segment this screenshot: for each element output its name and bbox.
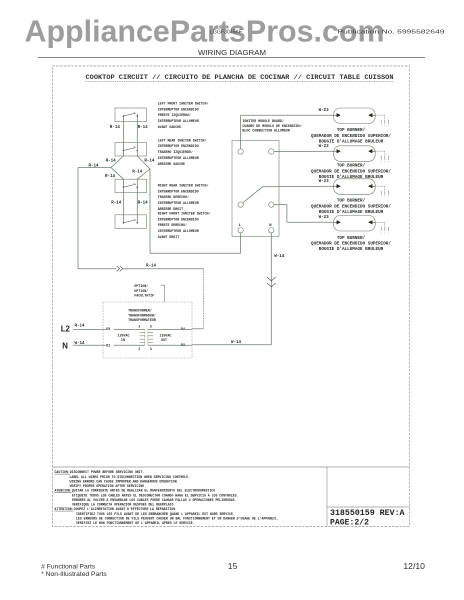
- wire to burner B4: [287, 221, 334, 223]
- top burner igniter B2: [334, 146, 376, 162]
- svg-text:TOP BURNER/: TOP BURNER/: [337, 164, 366, 169]
- wire pin4 to D2: [148, 344, 192, 346]
- svg-text:ATTENTION:COUPEZ L'ALIMENTATIO: ATTENTION:COUPEZ L'ALIMENTATION AVANT D'…: [55, 507, 178, 511]
- module relay arm: [243, 187, 263, 203]
- wire relay to burner B3: [263, 185, 334, 188]
- svg-text:318550159 REV:A: 318550159 REV:A: [330, 509, 405, 518]
- svg-text:QUEMADOR DE ENCENDIDO SUPERIOR: QUEMADOR DE ENCENDIDO SUPERIOR/: [311, 169, 391, 174]
- svg-text:15: 15: [228, 561, 238, 571]
- wire module TL up: [240, 115, 242, 149]
- terminal label D3: [106, 326, 114, 331]
- svg-text:AVANT GAUCHE.: AVANT GAUCHE.: [158, 125, 183, 129]
- igniter module board U1: [232, 141, 279, 237]
- svg-text:BOUGIE D'ALLUMAGE BRULEUR: BOUGIE D'ALLUMAGE BRULEUR: [319, 247, 384, 252]
- svg-text:LGGF3045KF: LGGF3045KF: [210, 30, 242, 36]
- igniter switch S3 right rear: [115, 179, 147, 193]
- svg-text:INTERRUPTOR ENCENDIDO: INTERRUPTOR ENCENDIDO: [158, 217, 199, 221]
- burner B2 spark electrode: [375, 150, 385, 152]
- svg-text:BOUGIE D'ALLUMAGE BRULEUR: BOUGIE D'ALLUMAGE BRULEUR: [319, 140, 384, 145]
- wire N to transformer D2: [192, 344, 271, 346]
- svg-text:ARRIERE GAUCHE: ARRIERE GAUCHE: [158, 162, 185, 166]
- svg-text:LES ERREURS DE CONNECTION DE F: LES ERREURS DE CONNECTION DE FILS PEUVEN…: [76, 516, 279, 520]
- svg-text:R-14: R-14: [105, 175, 116, 179]
- option bracket line: [161, 285, 165, 302]
- svg-text:W-23: W-23: [319, 216, 330, 220]
- svg-text:W-23: W-23: [319, 180, 330, 184]
- svg-text:QUEMADOR DE ENCENDIDO SUPERIOR: QUEMADOR DE ENCENDIDO SUPERIOR/: [311, 204, 391, 209]
- svg-text:R-14: R-14: [144, 159, 155, 163]
- transformer option dashed box: [103, 302, 192, 358]
- igniter switch S4 right front: [115, 215, 147, 229]
- svg-text:FRENTE IZQUIERDO/: FRENTE IZQUIERDO/: [158, 113, 191, 117]
- module terminal top-left: [238, 149, 243, 154]
- igniter switch S2 left rear: [115, 143, 147, 157]
- svg-text:BOUGIE D'ALLUMAGE BRULEUR: BOUGIE D'ALLUMAGE BRULEUR: [319, 175, 384, 180]
- burner B3 spark electrode: [375, 185, 385, 187]
- svg-text:D3: D3: [106, 328, 110, 332]
- svg-text:AVANT DROIT: AVANT DROIT: [158, 235, 180, 239]
- module terminal mid-left: [238, 202, 243, 207]
- svg-text:TRANSFORMATEUR: TRANSFORMATEUR: [128, 318, 156, 322]
- wire L2 to transformer pin 1: [73, 328, 145, 330]
- svg-text:INTERRUPTEUR ALLUMEUR: INTERRUPTEUR ALLUMEUR: [158, 229, 199, 233]
- wire N to transformer pin 2: [73, 344, 145, 346]
- svg-text:OUT: OUT: [161, 338, 167, 342]
- svg-text:QUEMADOR DE ENCENDIDO SUPERIOR: QUEMADOR DE ENCENDIDO SUPERIOR/: [311, 134, 391, 139]
- svg-text:RIGHT REAR IGNITER SWITCH/: RIGHT REAR IGNITER SWITCH/: [158, 183, 209, 187]
- terminal label D2: [180, 342, 188, 347]
- svg-text:TRANSFORMER/: TRANSFORMER/: [128, 309, 152, 313]
- svg-text:OPTION/: OPTION/: [134, 284, 148, 288]
- svg-text:ATENCION:QUITAR LA CORRIENTE A: ATENCION:QUITAR LA CORRIENTE ANTES DE RE…: [55, 489, 216, 493]
- burner B4 electrodes: [334, 221, 337, 223]
- svg-text:D2: D2: [181, 344, 185, 348]
- wire rail down to D4: [202, 269, 204, 329]
- svg-text:INTERRUPTEUR ALLUMEUR: INTERRUPTEUR ALLUMEUR: [158, 201, 199, 205]
- wire S2 left post to box bottom: [122, 151, 124, 157]
- svg-text:VERIFIEZ LE BON FONCTIONNEMENT: VERIFIEZ LE BON FONCTIONNEMENT DE L'APPA…: [76, 521, 195, 525]
- svg-text:* Non-Illustrated Parts: * Non-Illustrated Parts: [41, 572, 107, 578]
- svg-text:TOP BURNER/: TOP BURNER/: [337, 236, 366, 241]
- wire to burner B2: [274, 150, 334, 152]
- drawing frame border: [53, 66, 410, 527]
- transformer T1 windings: [140, 331, 145, 333]
- wire S2 right post to box bottom: [136, 151, 138, 157]
- svg-text:L2: L2: [61, 324, 71, 333]
- svg-text:120VAC: 120VAC: [118, 334, 130, 338]
- title block left divider: [326, 467, 328, 527]
- burner B1 spark electrode: [375, 114, 385, 116]
- svg-text:CUADRO DE MODULO DE ENCENDIDO/: CUADRO DE MODULO DE ENCENDIDO/: [242, 124, 301, 128]
- svg-text:4: 4: [150, 348, 152, 352]
- wire module MR right: [274, 204, 287, 206]
- wire N terminal down W-14: [270, 233, 272, 345]
- svg-text:R-14: R-14: [132, 170, 143, 174]
- wire bottom rail right: [123, 268, 203, 270]
- wire S1-S2 left: [122, 116, 124, 151]
- burner B4 spark electrode: [375, 221, 385, 223]
- title underline: [86, 81, 395, 83]
- svg-text:INTERRUPTOR ENCENDIDO: INTERRUPTOR ENCENDIDO: [158, 107, 199, 111]
- svg-text:2: 2: [138, 348, 140, 352]
- svg-text:WIRING ERRORS CAN CAUSE IMPROP: WIRING ERRORS CAN CAUSE IMPROPER AND DAN…: [70, 479, 179, 483]
- wire to burner B1: [241, 114, 334, 116]
- svg-text:FRENTE DERECHO/: FRENTE DERECHO/: [158, 223, 187, 227]
- svg-text:# Functional Parts: # Functional Parts: [41, 565, 95, 571]
- svg-text:INTERRUPTEUR ALLUMEUR: INTERRUPTEUR ALLUMEUR: [158, 156, 199, 160]
- svg-text:RIGHT FRONT IGNITER SWITCH/: RIGHT FRONT IGNITER SWITCH/: [158, 211, 211, 215]
- svg-text:FACULTATIF: FACULTATIF: [134, 294, 154, 298]
- connector chevron down: [267, 277, 276, 281]
- title block inner divider: [327, 506, 410, 508]
- svg-text:IDENTIFIEZ TOUS LES FILS AVANT: IDENTIFIEZ TOUS LES FILS AVANT DE LES DE…: [76, 512, 235, 516]
- wire S1-S2 right: [136, 116, 138, 151]
- svg-text:QUEMADOR DE ENCENDIDO SUPERIOR: QUEMADOR DE ENCENDIDO SUPERIOR/: [311, 242, 391, 247]
- svg-text:3: 3: [150, 325, 152, 329]
- switch blade 3: [123, 186, 125, 188]
- burner B1 electrodes: [334, 114, 337, 116]
- svg-text:W-14: W-14: [274, 255, 285, 259]
- terminal label D4: [180, 326, 188, 331]
- switch blade 4: [123, 222, 125, 224]
- svg-text:R-14: R-14: [89, 165, 100, 169]
- svg-text:LEFT REAR IGNITER SWITCH/: LEFT REAR IGNITER SWITCH/: [158, 138, 207, 142]
- connector chevron right: [117, 266, 120, 271]
- svg-text:LABEL ALL WIRES PRIOR TO DISCO: LABEL ALL WIRES PRIOR TO DISCONNECTION W…: [70, 475, 191, 479]
- svg-text:AppliancePartsPros.com: AppliancePartsPros.com: [25, 15, 385, 49]
- svg-text:D1: D1: [106, 344, 110, 348]
- svg-text:12/10: 12/10: [403, 561, 425, 571]
- wire pin3 to D4: [148, 328, 192, 330]
- svg-text:PAGE:2/2: PAGE:2/2: [330, 519, 369, 528]
- burner B2 electrodes: [334, 150, 337, 152]
- svg-text:TOP BURNER/: TOP BURNER/: [337, 128, 366, 133]
- svg-text:R-14: R-14: [110, 126, 121, 130]
- module terminal L: [238, 228, 243, 233]
- svg-text:120VAC: 120VAC: [160, 334, 172, 338]
- wire to transformer D4: [192, 328, 203, 330]
- svg-text:INTERRUPTOR ENCENDIDO: INTERRUPTOR ENCENDIDO: [158, 189, 199, 193]
- svg-text:BOUGIE D'ALLUMAGE BRULEUR: BOUGIE D'ALLUMAGE BRULEUR: [319, 210, 384, 215]
- switch blade 2: [123, 150, 125, 152]
- wire right rail to L: [150, 252, 241, 254]
- wire right rail vertical: [149, 169, 151, 253]
- svg-text:W-14: W-14: [231, 341, 242, 345]
- module terminal N: [269, 228, 274, 233]
- svg-text:R-14: R-14: [75, 325, 86, 329]
- svg-text:W-23: W-23: [319, 145, 330, 149]
- svg-text:IGNITER MODULE BOARD/: IGNITER MODULE BOARD/: [242, 119, 284, 123]
- svg-text:VERIFIQUE LA CORRECTA OPERACIO: VERIFIQUE LA CORRECTA OPERACION DESPUES …: [72, 503, 175, 507]
- transformer core left: [144, 329, 146, 345]
- svg-text:TRASERO IZQUIERDO/: TRASERO IZQUIERDO/: [158, 150, 193, 154]
- svg-text:1: 1: [138, 325, 140, 329]
- svg-text:BLOC CONNECTION ALLUMEUR: BLOC CONNECTION ALLUMEUR: [242, 128, 290, 132]
- svg-text:WIRING DIAGRAM: WIRING DIAGRAM: [198, 50, 266, 57]
- switch blade 1: [123, 115, 125, 117]
- svg-text:R-14: R-14: [106, 159, 117, 163]
- wire bottom rail left: [78, 268, 117, 270]
- svg-text:N: N: [62, 342, 68, 351]
- svg-text:W-23: W-23: [319, 109, 330, 113]
- svg-text:R-14: R-14: [146, 264, 157, 268]
- top burner igniter B1: [334, 108, 376, 124]
- svg-text:Publication No. 5995582649: Publication No. 5995582649: [338, 30, 445, 36]
- svg-text:LEFT FRONT IGNITER SWITCH/: LEFT FRONT IGNITER SWITCH/: [158, 101, 209, 105]
- top burner igniter B3: [334, 179, 376, 195]
- module terminal mid-right: [269, 202, 274, 207]
- wire left rail vertical: [77, 168, 79, 269]
- crossover diamond wires: [111, 156, 123, 223]
- svg-text:R-14: R-14: [138, 126, 149, 130]
- svg-text:INTERRUPTOR ENCENDIDO: INTERRUPTOR ENCENDIDO: [158, 144, 199, 148]
- svg-text:VERIFY PROPER OPERATION AFTER: VERIFY PROPER OPERATION AFTER SERVICING.: [70, 484, 147, 488]
- svg-text:CAUTION:DISCONNECT POWER BEFOR: CAUTION:DISCONNECT POWER BEFORE SERVICIN…: [55, 470, 145, 474]
- svg-text:R-14: R-14: [111, 201, 122, 205]
- wire up to L terminal: [240, 233, 242, 253]
- burner B3 electrodes: [334, 185, 337, 187]
- svg-text:TRANSFORMADOR/: TRANSFORMADOR/: [128, 313, 156, 317]
- svg-text:OPTION/: OPTION/: [134, 289, 148, 293]
- svg-text:ETIQUETE TODOS LOS CABLES ANTE: ETIQUETE TODOS LOS CABLES ANTES EL DESCO…: [72, 493, 239, 497]
- wire diamond tap to left rail: [78, 167, 111, 169]
- transformer core right: [147, 329, 149, 345]
- svg-text:ARRIERE DROIT: ARRIERE DROIT: [158, 207, 183, 211]
- module terminal top-right: [269, 149, 274, 154]
- svg-text:TOP BURNER/: TOP BURNER/: [337, 199, 366, 204]
- svg-text:D4: D4: [181, 328, 185, 332]
- svg-text:COOKTOP CIRCUIT // CIRCUITO DE: COOKTOP CIRCUIT // CIRCUITO DE PLANCHA D…: [86, 74, 394, 81]
- svg-text:TRASERO DERECHO/: TRASERO DERECHO/: [158, 195, 189, 199]
- svg-text:IN: IN: [121, 338, 125, 342]
- header rule: [38, 57, 425, 59]
- svg-text:INTERRUPTEUR ALLUMEUR: INTERRUPTEUR ALLUMEUR: [158, 119, 199, 123]
- bottom strip divider: [53, 466, 410, 468]
- svg-text:R-14: R-14: [138, 201, 149, 205]
- top burner igniter B4: [334, 216, 376, 232]
- terminal label D1: [106, 342, 114, 347]
- svg-text:ERRORES AL VOLVER A ENSAMBLAR: ERRORES AL VOLVER A ENSAMBLAR LOS CABLES…: [72, 498, 237, 502]
- igniter switch S1 left front: [115, 108, 147, 122]
- wire down to burner B4 level: [286, 205, 288, 223]
